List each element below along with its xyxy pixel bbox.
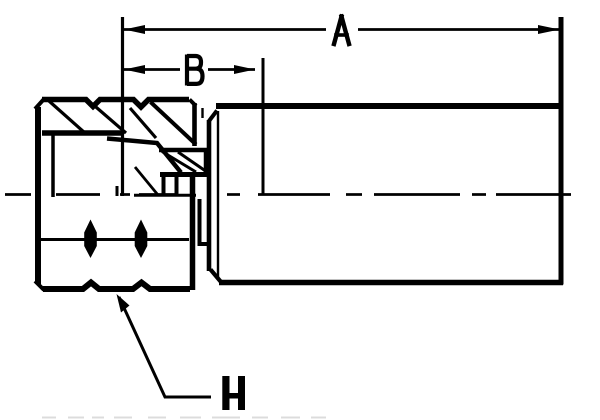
- nut left edge: [35, 107, 41, 284]
- thread band bottom: [42, 130, 123, 136]
- nut hatch line 2: [93, 105, 126, 134]
- arrowhead A right: [538, 25, 560, 34]
- centerline (dash-dot): [5, 193, 571, 196]
- nipple section right edge: [204, 148, 209, 176]
- arrowhead B left: [124, 65, 145, 74]
- dimension line A: [124, 28, 326, 31]
- nipple hatch line 2: [178, 152, 207, 172]
- nipple flare and seat cone: [107, 139, 181, 173]
- leader line to H: [119, 297, 211, 397]
- nut hatch line 1: [49, 101, 85, 133]
- nut bore wall: [51, 134, 55, 197]
- nut hatch line 3: [130, 108, 156, 138]
- dimension line B: [124, 68, 180, 71]
- leader arrowhead: [117, 294, 130, 313]
- shell bottom-left chamfer: [211, 270, 222, 283]
- nut right edge lower: [190, 174, 196, 290]
- nipple shoulder line: [159, 148, 208, 153]
- nipple hatch line 1: [162, 152, 196, 173]
- scan artifact dashes at bottom: [42, 417, 326, 419]
- nipple nose face: [162, 176, 166, 196]
- nut top edge with hex notches: [42, 100, 189, 108]
- arrowhead A left: [124, 25, 145, 34]
- shell inner edge line: [217, 111, 219, 279]
- nut top-right chamfer: [190, 100, 197, 107]
- nut internal cone edge: [151, 102, 197, 145]
- flare inner cone: [135, 167, 158, 195]
- bore line: [134, 194, 196, 197]
- nut top-left chamfer: [35, 99, 44, 109]
- label A: [334, 17, 349, 45]
- label B: [187, 55, 203, 86]
- thread end face: [116, 186, 119, 196]
- nipple nose inner face: [175, 175, 179, 196]
- nipple section bottom: [160, 172, 210, 177]
- nut bottom-left chamfer: [35, 281, 44, 290]
- hex flat line: [41, 238, 189, 241]
- shell right edge: [559, 17, 564, 285]
- nipple hex corner tick: [201, 108, 203, 118]
- label H: [222, 376, 245, 410]
- extension line right of B: [262, 58, 265, 195]
- nut bottom edge with hex notches: [43, 283, 190, 290]
- hex corner lens 1: [84, 220, 97, 259]
- shell left end face: [207, 120, 212, 271]
- extension line left (A/B): [121, 17, 124, 196]
- shell top edge: [216, 103, 563, 109]
- hex corner lens 2: [135, 220, 148, 259]
- nipple collar lower: [200, 199, 210, 244]
- nut right edge upper: [192, 103, 197, 146]
- shell bottom edge: [219, 280, 563, 286]
- arrowhead B right: [234, 65, 255, 74]
- shell top-left chamfer: [209, 111, 217, 122]
